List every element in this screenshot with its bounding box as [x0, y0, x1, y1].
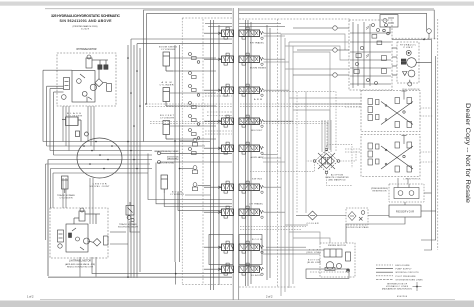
- junction dots: [127, 57, 180, 278]
- top supply lines right page: [239, 10, 434, 39]
- aux flow label: [168, 156, 179, 159]
- pressure relief valves column: [180, 138, 211, 191]
- inlet feed lines: [285, 42, 349, 69]
- svg-text:SWING MOTOR: SWING MOTOR: [328, 245, 346, 247]
- page bottom edge line: [40, 299, 455, 301]
- A5 pilot dashed links: [240, 145, 356, 230]
- bottom return lines: [80, 154, 232, 278]
- center supply line bundle (vertical): [128, 39, 232, 278]
- LH travel motor enclosure: [50, 208, 108, 258]
- right margin return lines: [421, 39, 436, 250]
- valve row BOOM SWING: [222, 53, 264, 65]
- svg-text:FILTER IN BY-PASS: FILTER IN BY-PASS: [347, 226, 370, 229]
- R/H joystick enclosure: [361, 91, 420, 132]
- hydraulic pump enclosure: [397, 42, 419, 83]
- swivel joint passage lines: [43, 142, 210, 241]
- title block: [51, 14, 120, 31]
- inlet manifold internals: [350, 22, 391, 88]
- pilot gray feeders: [322, 120, 331, 155]
- svg-text:PUMP SUPPLY: PUMP SUPPLY: [396, 269, 413, 271]
- L/H joystick valve: [368, 136, 413, 173]
- valve row BLADE: [222, 263, 264, 275]
- boom lock valve enclosure right: [239, 235, 262, 265]
- svg-text:TRACK EXPAND: TRACK EXPAND: [119, 223, 137, 226]
- svg-text:FEMALE (PRESSURE) COUPLER: FEMALE (PRESSURE) COUPLER: [155, 150, 180, 153]
- R/H joystick valve: [368, 91, 413, 128]
- legend enclosure sample: [376, 265, 423, 291]
- svg-text:V-2029: V-2029: [81, 28, 90, 30]
- page top edge line: [45, 8, 232, 10]
- pilot solid drop: [305, 92, 307, 213]
- pilot dashed drop: [296, 92, 298, 213]
- svg-text:S/N 562411001 AND ABOVE: S/N 562411001 AND ABOVE: [60, 19, 113, 23]
- valve row feed arrows: [204, 32, 222, 270]
- svg-text:(INDICATED BY JUNCTION DOT): (INDICATED BY JUNCTION DOT): [382, 288, 412, 291]
- valve row BUCKET: [222, 115, 264, 127]
- svg-text:SWING: SWING: [252, 179, 262, 181]
- pilot supply port (top right): [392, 29, 432, 40]
- svg-text:2 of 2: 2 of 2: [266, 295, 273, 299]
- valve row BOOM: [222, 241, 264, 253]
- svg-text:RH TRAVEL: RH TRAVEL: [250, 42, 265, 45]
- track expand solenoid valve: [126, 202, 134, 222]
- svg-text:(PRINTED MARCH 1999): (PRINTED MARCH 1999): [73, 25, 98, 28]
- valve bank enclosure (left page): [182, 18, 232, 285]
- svg-text:(RED LINE): (RED LINE): [307, 252, 321, 254]
- cooler: [308, 211, 317, 220]
- svg-text:RESERVOIR: RESERVOIR: [373, 191, 388, 193]
- swing gearbox outline: [306, 267, 349, 278]
- svg-text:PILOT PRESSURE: PILOT PRESSURE: [396, 276, 417, 278]
- pressurized reservoir enclosure: [389, 184, 424, 202]
- svg-text:ENCLOSURE: ENCLOSURE: [396, 265, 411, 267]
- return riser pair: [175, 45, 180, 262]
- arm cylinder: [163, 88, 173, 107]
- main pressure lines right of bank: [281, 34, 293, 296]
- track expand cylinder: [62, 176, 69, 193]
- valve row AUXILIARY: [222, 142, 264, 154]
- svg-text:Dealer Copy -- Not for Resale: Dealer Copy -- Not for Resale: [464, 103, 470, 204]
- svg-text:R/H JOYSTICK: R/H JOYSTICK: [403, 89, 421, 91]
- riser end at dashed bottom: [175, 262, 177, 285]
- page gutter right edge: [238, 8, 240, 300]
- filter in by-pass enclosure: [346, 208, 368, 225]
- svg-text:RESERVOIR: RESERVOIR: [396, 211, 414, 214]
- boom swing cylinder: [163, 52, 173, 71]
- svg-text:CYLINDER: CYLINDER: [160, 85, 174, 87]
- quick couplers: [158, 152, 233, 164]
- svg-text:CYLINDER: CYLINDER: [160, 118, 174, 120]
- valve row labels: [249, 42, 266, 278]
- main return line: [48, 160, 232, 278]
- bucket cylinder: [163, 121, 173, 140]
- wires cylinder to valve bank: [170, 58, 217, 139]
- boom lock valve enclosure left: [209, 235, 233, 265]
- svg-text:CYLINDER: CYLINDER: [170, 194, 184, 196]
- enclosure bottom dashed (left page): [182, 284, 232, 286]
- svg-text:COOLER: COOLER: [307, 223, 319, 225]
- svg-text:SOLENOID VALVE: SOLENOID VALVE: [118, 226, 139, 229]
- RH travel motor internals: [62, 55, 112, 102]
- RH travel motor enclosure: [57, 53, 116, 106]
- svg-text:HYDRAULIC LINES: HYDRAULIC LINES: [386, 285, 409, 288]
- L/H joystick enclosure: [361, 135, 420, 177]
- top supply lines: [144, 10, 233, 142]
- page gutter left edge: [232, 8, 234, 300]
- svg-text:RH TRAVEL MOTOR: RH TRAVEL MOTOR: [77, 48, 97, 51]
- valve row ARM: [222, 84, 264, 96]
- valve bank feed risers left: [211, 20, 220, 290]
- filter internals: [348, 211, 365, 221]
- scanner top gray band: [0, 2, 474, 6]
- swing motor enclosure: [320, 243, 355, 277]
- valve row LH TRAVEL: [222, 206, 264, 218]
- boom cylinder: [161, 175, 168, 193]
- inlet control manifold enclosure: [349, 20, 392, 90]
- gauge port M2: [297, 48, 349, 52]
- svg-text:(BLUE LINE): (BLUE LINE): [307, 262, 321, 264]
- svg-text:325 HYDRAULIC/HYDROSTATIC SCHE: 325 HYDRAULIC/HYDROSTATIC SCHEMATIC: [51, 14, 120, 18]
- load check valve column: [189, 53, 200, 155]
- svg-text:L/H JOYSTICK: L/H JOYSTICK: [404, 179, 422, 181]
- gauge port M3: [293, 73, 349, 77]
- joystick to reservoir drops: [398, 178, 408, 184]
- valve row SWING: [222, 181, 264, 193]
- joystick pilot connectors: [345, 104, 433, 162]
- riser links below swivel: [63, 178, 140, 244]
- pilot dashed riser 2: [181, 18, 183, 285]
- swing motor feed lines: [263, 250, 324, 254]
- right page feed risers: [246, 20, 271, 286]
- svg-text:BOOM SWING: BOOM SWING: [250, 68, 266, 70]
- svg-text:SWIVEL JOINT: SWIVEL JOINT: [90, 186, 111, 188]
- pilot dashed network: [146, 92, 361, 152]
- swing motor internals: [324, 249, 351, 272]
- svg-text:AND MANIFOLD: AND MANIFOLD: [329, 178, 347, 181]
- risers from RH motor to swivel: [63, 106, 94, 151]
- junction dots in swivel: [83, 141, 113, 170]
- svg-text:SYSTEM RETURN LINES: SYSTEM RETURN LINES: [396, 279, 424, 281]
- wires into RH travel motor: [43, 70, 72, 155]
- svg-text:ARM: ARM: [254, 98, 262, 101]
- svg-text:BUCKET: BUCKET: [252, 130, 264, 132]
- svg-text:CYLINDER: CYLINDER: [161, 49, 175, 51]
- svg-text:WORKING CIRCUITS: WORKING CIRCUITS: [396, 272, 420, 274]
- LH travel motor internals: [58, 208, 109, 252]
- svg-text:BLADE: BLADE: [251, 274, 262, 277]
- supply sweep to pump: [281, 34, 362, 243]
- svg-text:AUXILIARY: AUXILIARY: [251, 156, 265, 159]
- pilot solenoid block: [380, 15, 398, 35]
- gauge port M1: [293, 26, 349, 30]
- return plumbing right bottom: [296, 202, 436, 243]
- svg-text:AUX FLOW: AUX FLOW: [168, 157, 177, 160]
- valve row RH TRAVEL: [222, 27, 264, 39]
- bank feed top lines: [205, 24, 285, 27]
- svg-text:1 of 2: 1 of 2: [27, 295, 34, 299]
- center swivel joint: [77, 138, 122, 178]
- svg-text:CENTER: CENTER: [93, 184, 107, 186]
- hydraulic pump internals: [392, 48, 432, 86]
- valve bank enclosure (right page): [239, 19, 438, 287]
- svg-text:6902206: 6902206: [397, 296, 408, 298]
- blade cylinder: [62, 117, 89, 142]
- scanner bottom gray band: [0, 301, 474, 307]
- pressurized reservoir internals: [394, 184, 419, 199]
- row to bundle stubs: [262, 33, 306, 247]
- reservoir box: [389, 205, 421, 217]
- A5 option remote converter symbol: [313, 148, 340, 174]
- svg-text:PUMP: PUMP: [404, 47, 414, 49]
